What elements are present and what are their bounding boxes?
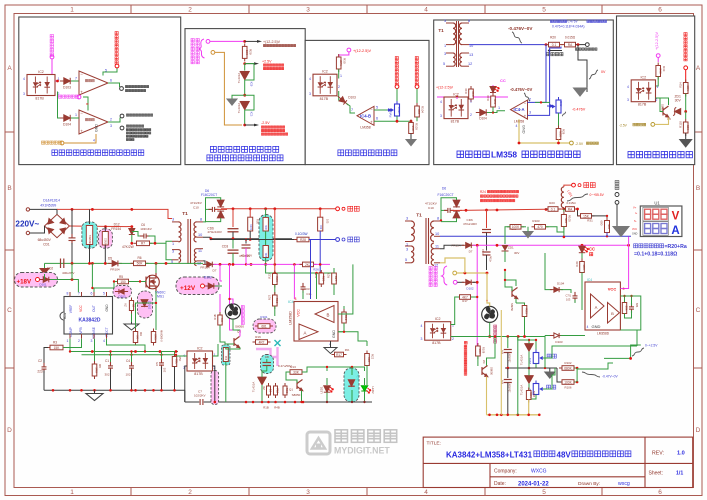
svg-text:630: 630 [367,357,371,362]
T1 secondary winding lower [194,249,196,266]
P3 wire IC2 pin2 to D103 [338,91,340,101]
P4 op-amp IC4-A LM358 [511,100,528,123]
P1 green wire IC2 pin2 down to D104 [58,92,63,119]
middle IC2 817B right [425,317,451,345]
svg-text:C5: C5 [155,362,159,366]
P1 op-amp U-A [79,71,108,95]
svg-text:R108: R108 [481,347,485,354]
svg-text:D7: D7 [213,269,217,273]
svg-text:3: 3 [110,124,112,128]
resistor R6 50R [119,262,133,264]
svg-text:-0.476V~0V: -0.476V~0V [510,87,532,92]
green loops TL431 right [528,340,530,344]
T1 pin numbers [171,218,202,266]
P4 T1 core [457,21,459,67]
svg-text:−: − [524,101,527,106]
svg-text:GND: GND [632,233,638,236]
wire green loop D6 [203,198,221,222]
svg-text:15K: 15K [54,346,61,350]
svg-text:R24: R24 [480,190,486,194]
P1 wire D104 to op-amp B [71,117,79,119]
svg-text:27K: 27K [339,60,343,65]
P1 diode D104 [60,115,74,121]
svg-text:471/2KV: 471/2KV [190,201,203,205]
IC1 KA3842D box [64,297,113,335]
svg-text:IC2: IC2 [322,70,328,74]
P3 diode D103 diagonal [336,94,350,107]
P4 T1 primary winding lower [453,53,455,66]
svg-text:R8: R8 [98,364,102,368]
svg-text:S8050: S8050 [490,367,494,376]
svg-text:10u/63V: 10u/63V [509,353,512,362]
wire pin10 black rail [203,237,292,239]
resistor R003 mid [283,383,289,398]
svg-text:IC2: IC2 [435,317,441,321]
svg-text:LM358: LM358 [491,150,517,160]
mid bottom rail [236,401,310,403]
svg-text:7: 7 [75,77,77,81]
P4 T1 pin stubs and numbers [446,23,469,66]
wire COMP pin1 down [69,339,70,352]
svg-text:4: 4 [516,124,518,128]
gnd arrow mid right [549,368,551,372]
svg-text:6: 6 [376,117,378,121]
P3 resistor R30 [336,54,342,72]
wire L101 to output terminal [564,185,572,187]
svg-text:LM358D: LM358D [597,332,610,336]
green rail bottom primary [45,262,111,264]
svg-text:68u450V: 68u450V [38,238,52,242]
P1 terminal 电压供电 (magenta) [50,55,54,59]
resistor R105 vertical [563,209,565,212]
T1 right pin stubs [405,221,440,263]
P4 squiggle 0V [589,70,598,79]
panel 3 box [305,40,429,164]
svg-text:501B: 501B [532,391,536,397]
svg-text:R17: R17 [462,299,468,303]
svg-text:2: 2 [338,85,340,89]
P3 wire D103 to op-amp output pin7 [347,104,356,114]
P4 junction dots on magenta rail [456,96,459,99]
svg-text:2024-01-22: 2024-01-22 [518,481,549,487]
wire AC N to bridge [30,226,45,233]
varistor teal highlight [82,222,97,248]
svg-text:1: 1 [75,113,77,117]
svg-text:F16C20CT: F16C20CT [201,193,217,197]
svg-text:Z6: Z6 [124,303,128,307]
wire fan to Q2 [230,299,234,304]
svg-text:-0.476V: -0.476V [572,108,586,112]
svg-text:−: − [80,110,83,115]
svg-text:ZD: ZD [262,386,266,390]
svg-text:A: A [595,305,598,310]
svg-text:3: 3 [406,248,408,252]
P3 wire terminal to pot RV01A [396,89,398,104]
resistor C1B fan series [219,294,221,314]
svg-text:A: A [304,331,307,336]
svg-text:103: 103 [566,298,571,302]
svg-text:D7: D7 [469,250,473,254]
shunt resistor upper [265,209,267,218]
svg-text:4: 4 [23,77,25,81]
svg-text:F16C20CT: F16C20CT [438,193,454,197]
svg-text:3: 3 [172,250,174,254]
wire Q2 emitter down to teal resistor [226,348,240,350]
svg-text:680K: 680K [564,366,572,370]
P2 terminal AC b (orange) [211,51,215,55]
svg-text:VCC: VCC [608,287,617,292]
pink dashed oval R101 [253,319,276,333]
P2 wire IC3 to bottom junction [244,110,246,125]
svg-text:IC2: IC2 [641,75,647,79]
transistor Q1 S8050 mid [297,380,303,391]
pot RV01A lower tiaoliu [533,381,546,398]
P2 TL431A IC3 [240,101,249,109]
svg-text:CD3: CD3 [222,245,229,249]
svg-text:3: 3 [172,218,174,222]
P4 optocoupler IC2 [444,93,468,124]
svg-text:KA3842+LM358+LT431: KA3842+LM358+LT431 [446,451,533,460]
resistor R19 vertical right of IC4 [343,306,345,311]
P4 resistor R20 0.1R [546,42,563,47]
pink oval D203 [113,286,132,299]
svg-text:RV01A: RV01A [389,108,393,117]
svg-text:-0.47V~0V: -0.47V~0V [602,375,618,379]
wire main rail drop to lower rail [184,390,186,402]
P3 IC2 pin numbers [309,77,340,96]
svg-text:LED1: LED1 [320,386,324,393]
svg-text:3: 3 [444,19,446,23]
svg-text:4: 4 [440,100,442,104]
green ctrl rail 2 [82,354,177,356]
sense teal box with two shunts [259,215,273,262]
red vertical annotation right [464,341,467,344]
svg-text:13: 13 [469,53,473,57]
green vertical to bottom rail [517,337,519,415]
svg-text:4: 4 [587,325,589,329]
fan label right [494,325,497,343]
svg-text:C8: C8 [265,355,269,359]
P2 junction +2.5V [243,62,246,65]
svg-text:3: 3 [529,111,531,115]
svg-text:5: 5 [105,69,107,73]
green wire pots to opamp B [543,346,637,358]
svg-text:R33: R33 [662,66,666,72]
T1 right primary winding upper [411,221,414,241]
svg-text:B: B [611,311,614,316]
+18V pink oval with D101 [15,273,58,288]
svg-text:Sheet:: Sheet: [649,471,663,477]
svg-text:C: C [696,307,701,314]
P3 wire terminal to R104 [416,89,418,105]
svg-text:150: 150 [120,280,126,284]
resistor RA right [563,207,578,212]
AC input terminal N [26,231,29,234]
P5 GND arrow [685,133,687,140]
main IC2 817B optocoupler [187,347,213,377]
svg-text:6: 6 [658,7,662,14]
svg-text:0.1: 0.1 [551,207,556,211]
svg-text:12: 12 [434,264,438,268]
svg-text:2: 2 [110,118,112,122]
svg-text:5: 5 [542,489,546,496]
svg-text:R27: R27 [268,294,272,300]
green vertical VREF supply [91,263,93,288]
teal cut mark X [275,340,281,346]
svg-text:R%: R% [345,348,350,352]
svg-text:IC2: IC2 [453,93,459,97]
svg-text:4: 4 [309,77,311,81]
red rail right half [460,209,564,210]
blue wire from R28 node down [310,240,312,300]
svg-text:3: 3 [306,489,310,496]
P1 terminal 电压供电 mid (magenta) [77,95,81,99]
wire transformer pin5 down [166,243,172,259]
wire IC2 pin2 riser [213,366,215,402]
magenta rail after D7 [214,263,252,265]
wires Q1 LED net [302,367,327,372]
svg-text:R1B: R1B [213,314,217,319]
watermark logo [307,432,330,454]
svg-text:+: + [524,114,527,119]
P4 green wire pin2 to pot [535,101,550,103]
svg-text:R20: R20 [549,201,555,205]
green rail from IC2 pin2 [451,336,545,338]
resistor R50K bottom right [526,388,532,403]
svg-text:R103: R103 [532,219,540,223]
bridge rectifier diamond [45,214,70,237]
svg-text:R24: R24 [679,82,683,88]
pink highlight C7 riser bar [211,371,219,405]
P4 gnd arrow [574,88,587,96]
resistor R23 right [515,299,517,304]
P3 wire R30 to IC2 pin1 [338,69,340,79]
svg-text:2K0: 2K0 [658,68,662,74]
P3 terminal +(12-2.5)V (magenta) [347,48,351,52]
svg-text:−: − [80,71,83,76]
svg-text:IC4-A: IC4-A [514,107,525,112]
sense resistor R9 [136,303,157,330]
P4 terminal main output [585,43,589,47]
svg-text:470u/100V: 470u/100V [207,230,222,234]
svg-text:IC1: IC1 [62,312,67,319]
svg-text:3B3: 3B3 [582,264,586,270]
svg-text:1/1: 1/1 [676,471,683,477]
P2 arrow -2.5V [245,124,256,126]
shunt resistor lower [265,231,267,246]
gnd open arrow under gate network [131,322,133,324]
resistor column R05 [249,209,251,217]
resistor R106 180R [559,380,577,385]
P4 black wire terminal down [578,45,587,92]
P2 resistor R29 [242,43,248,61]
P5 wire zener to R110 [685,112,687,120]
svg-text:3: 3 [306,7,310,14]
svg-text:VFB: VFB [79,327,83,333]
svg-text:Q1: Q1 [289,388,293,392]
svg-text:103/1KV: 103/1KV [140,227,152,231]
svg-text:30K: 30K [264,225,268,230]
svg-text:5: 5 [376,106,378,110]
wire fan right connections [487,273,490,306]
svg-text:D104: D104 [479,117,487,121]
resistor column R31b [319,209,321,217]
svg-text:817B: 817B [638,103,647,107]
P5 wire R33 to IC2 pin1 [656,77,659,87]
P4 GND pin4 olive wire [519,119,569,143]
yellow winding terminals with brace [442,266,448,285]
blue rail pin10 right [440,235,631,237]
switch label and terminal [615,181,619,190]
svg-text:4X1N5399: 4X1N5399 [40,204,56,208]
svg-text:817B: 817B [320,97,329,101]
svg-text:ZD102: ZD102 [148,301,152,310]
title block frame [423,437,693,487]
svg-text:2: 2 [529,98,531,102]
wire R11 bottom down [225,362,227,403]
P4 resistor R28 below pot [558,113,560,128]
svg-text:+18V: +18V [17,279,32,286]
svg-text:IC4: IC4 [288,300,294,304]
inductor L101 [561,187,564,208]
IC1 pin stubs and numbers [70,292,107,339]
IC4 LM358D box mid [294,302,338,342]
P3 terminal +2.5V基准电压 (red) [395,85,399,89]
P1 terminal 电流采样信号 [120,126,124,130]
svg-text:B: B [7,185,11,192]
svg-text:R29: R29 [575,261,579,267]
green loop D6 right [440,198,457,221]
svg-text:3: 3 [440,114,442,118]
P2 wire junction to TL431 IC9 [244,64,246,71]
svg-text:1K: 1K [220,318,224,322]
svg-text:IC2: IC2 [197,347,203,351]
blue note current sampling [634,244,664,248]
wire IC2 pin1 up [213,344,218,356]
P5 terminal magenta [656,54,660,58]
P5 wire terminal to R33 [657,58,659,63]
P3 node joining pot R104 R103 [396,116,398,121]
svg-text:47u/50V: 47u/50V [241,254,252,258]
svg-text:817B: 817B [432,341,441,345]
output terminal + (red) [336,207,340,211]
svg-text:817B: 817B [451,120,460,124]
wire source down to sense [155,291,157,303]
magenta mid rail [246,263,302,265]
svg-text:8: 8 [85,103,89,105]
svg-text:R27: R27 [327,272,331,278]
svg-text:R25: R25 [321,276,325,282]
svg-text:05L: 05L [175,359,179,364]
transistor Q3 right with LD label [512,288,518,299]
P1 diode D103 [60,78,74,84]
pink oval ZD102 [138,291,153,318]
svg-text:R19: R19 [344,315,348,321]
svg-text:Drawn By:: Drawn By: [578,481,600,487]
magenta rail right after D7 [473,244,629,246]
P3 resistor R103 [409,120,415,137]
svg-text:R50: R50 [178,356,182,362]
R and C right of IC4 [622,300,628,317]
svg-text:D: D [696,427,701,434]
svg-text:VREF: VREF [69,305,73,314]
pot RV01A upper tiaoya [533,350,546,367]
svg-text:+(12-2.5)V: +(12-2.5)V [655,31,659,50]
svg-text:10u/63V: 10u/63V [509,383,512,392]
svg-text:R106: R106 [565,386,572,390]
wire drain to transformer pin1 [155,263,157,273]
svg-text:R20: R20 [550,36,556,40]
blue wire R31b down [319,231,321,273]
MOSFET MS1 5N60C [146,273,160,291]
P4 blue wire pin2 up [528,45,547,103]
svg-text:D103: D103 [63,86,71,90]
svg-text:1: 1 [70,7,74,14]
wire AC L to bridge [30,209,57,214]
svg-text:-2.5V: -2.5V [619,123,628,127]
svg-text:1: 1 [470,100,472,104]
P1 caption [52,150,144,156]
svg-text:R28: R28 [562,129,566,135]
svg-text:R10: R10 [275,298,279,304]
svg-text:ZD1: ZD1 [508,246,514,250]
panel 5 box [617,16,695,165]
svg-text:VCC: VCC [297,309,301,317]
resistor R50 05LM [174,352,176,356]
svg-text:7: 7 [78,292,80,296]
svg-text:GND: GND [332,330,336,338]
P5 terminal red [684,66,688,70]
svg-text:GND: GND [95,124,99,132]
wire IC2 pin1 up right [451,310,455,325]
svg-text:11: 11 [198,249,202,253]
svg-text:wxcg: wxcg [618,481,630,487]
svg-text:VCC: VCC [79,304,83,311]
P5 red vertical label 调压输出采样值 [684,33,687,61]
T1 right core [426,218,429,264]
svg-text:−: − [370,107,373,112]
svg-text:U1: U1 [654,201,660,206]
svg-text:R103: R103 [415,123,419,130]
P4 T1 secondary winding upper [459,23,462,45]
svg-text:S8050: S8050 [235,325,244,329]
svg-text:MYDIGIT.NET: MYDIGIT.NET [334,446,390,456]
svg-text:7: 7 [351,108,353,112]
IC4 right triangle B [608,303,620,324]
svg-text:30K: 30K [264,252,268,257]
svg-text:10: 10 [198,233,202,237]
svg-text:3: 3 [444,52,446,56]
svg-text:684: 684 [635,303,639,308]
svg-text:R23: R23 [275,276,279,282]
green wires around IC4 mid [316,273,318,299]
output terminal right (red) [572,183,576,187]
P1 op-amp B output to terminal -0.476V [108,118,120,123]
+12V pink oval with D102 [176,277,219,295]
svg-text:3R9: 3R9 [95,367,99,373]
svg-text:FR104: FR104 [110,268,120,272]
svg-text:1: 1 [657,85,659,89]
svg-text:D103: D103 [555,340,563,344]
P5 caption [628,152,692,158]
svg-text:30K: 30K [320,224,323,229]
divider R23 upper [273,271,279,288]
P1 wire to op-amp A minus [71,80,79,82]
svg-text:D1&#126;4: D1&#126;4 [43,199,60,203]
svg-text:3: 3 [627,98,629,102]
svg-text:680: 680 [417,109,421,114]
svg-text:TL431A: TL431A [520,385,524,396]
